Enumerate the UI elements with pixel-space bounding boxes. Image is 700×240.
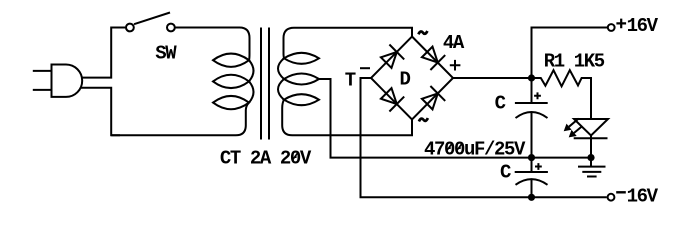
svg-text:C: C — [500, 162, 511, 184]
svg-text:SW: SW — [155, 43, 177, 65]
svg-text:CT 2A 20V: CT 2A 20V — [220, 148, 312, 170]
svg-text:C: C — [495, 92, 506, 114]
svg-text:4700uF/25V: 4700uF/25V — [424, 139, 526, 161]
svg-text:16V: 16V — [627, 15, 659, 37]
svg-text:D: D — [400, 69, 411, 91]
svg-text:4A: 4A — [443, 32, 465, 54]
svg-text:16V: 16V — [627, 186, 659, 208]
svg-text:R1 1K5: R1 1K5 — [544, 50, 605, 72]
svg-text:T: T — [345, 70, 356, 92]
